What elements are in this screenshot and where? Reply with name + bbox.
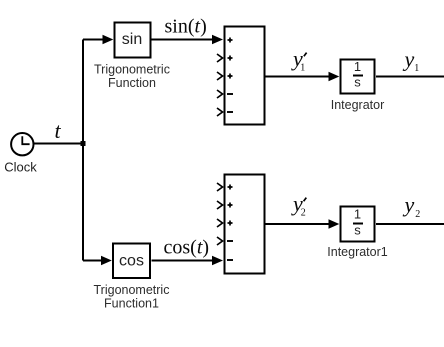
- svg-text:Trigonometric: Trigonometric: [94, 283, 170, 297]
- wire branch to cos input: [83, 256, 112, 266]
- wire branch to sin input: [83, 35, 113, 45]
- svg-text:cos: cos: [119, 253, 144, 270]
- svg-text:t: t: [55, 118, 62, 143]
- block sin Trigonometric Function: [115, 23, 151, 58]
- svg-text:Clock: Clock: [4, 159, 37, 174]
- svg-text:1: 1: [354, 207, 361, 222]
- svg-text:Trigonometric: Trigonometric: [94, 63, 170, 77]
- Sum2 sign plus 1: [228, 185, 233, 190]
- wire sum1 output to integrator: [266, 72, 340, 82]
- block Integrator1 1/s: [341, 207, 375, 242]
- Sum1 port 4 open: [217, 90, 223, 98]
- sum block Sum1: [225, 27, 265, 125]
- Sum1 sign minus 5: [227, 111, 233, 113]
- Sum2 port 1 open: [217, 183, 223, 191]
- Sum2 port 2 open: [217, 201, 223, 209]
- wire sum2 output to integrator1: [266, 219, 340, 229]
- svg-text:Integrator1: Integrator1: [327, 245, 388, 259]
- Sum1 port 5 open: [217, 108, 223, 116]
- svg-text:cos(t): cos(t): [164, 237, 210, 259]
- wire clock output to junction: [34, 143, 85, 145]
- svg-text:sin: sin: [122, 31, 142, 48]
- svg-text:sin(t): sin(t): [165, 15, 207, 37]
- svg-text:Function1: Function1: [104, 297, 159, 311]
- svg-text:s: s: [354, 75, 361, 90]
- Sum2 port 4 open: [217, 237, 223, 245]
- node junction on t: [81, 141, 86, 146]
- sum block Sum2: [225, 175, 265, 274]
- wire integrator1 output y2: [376, 223, 444, 225]
- wire sin(t) to sum1 port1: [152, 35, 224, 45]
- wire integrator output y1: [376, 76, 444, 78]
- label Trigonometric Function1: [94, 283, 170, 311]
- clock block Clock: [11, 133, 33, 155]
- svg-text:1: 1: [354, 59, 361, 74]
- block cos Trigonometric Function1: [113, 244, 150, 279]
- Sum1 sign minus 4: [227, 93, 233, 95]
- Sum2 sign plus 3: [228, 221, 233, 226]
- block Integrator 1/s: [341, 59, 375, 94]
- Sum2 sign plus 2: [228, 203, 233, 208]
- Sum2 port 3 open: [217, 219, 223, 227]
- label Trigonometric Function: [94, 63, 170, 91]
- Sum1 sign plus 3: [228, 74, 233, 79]
- Sum2 sign minus 5: [227, 259, 233, 261]
- Sum2 sign minus 4: [227, 240, 233, 242]
- Sum1 port 3 open: [217, 72, 223, 80]
- svg-text:Integrator: Integrator: [331, 98, 385, 112]
- svg-text:Function: Function: [108, 76, 156, 90]
- Sum1 port 2 open: [217, 54, 223, 62]
- Sum1 sign plus 2: [228, 56, 233, 61]
- wire cos(t) to sum2 port5: [152, 256, 224, 266]
- Sum1 sign plus 1: [228, 38, 233, 43]
- svg-text:s: s: [354, 223, 361, 238]
- wire branch vertical: [82, 40, 84, 261]
